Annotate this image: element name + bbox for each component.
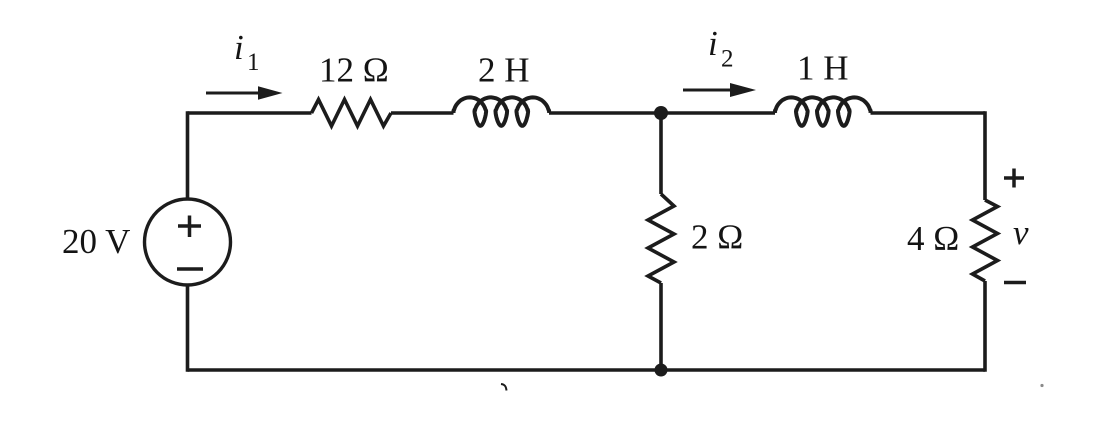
svg-text:2: 2 xyxy=(721,46,734,73)
svg-text:20 V: 20 V xyxy=(62,222,130,261)
svg-text:12 Ω: 12 Ω xyxy=(319,51,389,90)
svg-text:2 H: 2 H xyxy=(478,51,530,90)
svg-text:1 H: 1 H xyxy=(797,49,849,88)
svg-text:i: i xyxy=(234,28,244,67)
svg-text:2 Ω: 2 Ω xyxy=(691,218,743,257)
svg-text:i: i xyxy=(708,24,718,63)
svg-text:4 Ω: 4 Ω xyxy=(907,219,959,258)
svg-text:1: 1 xyxy=(247,49,260,76)
svg-text:v: v xyxy=(1013,213,1029,252)
